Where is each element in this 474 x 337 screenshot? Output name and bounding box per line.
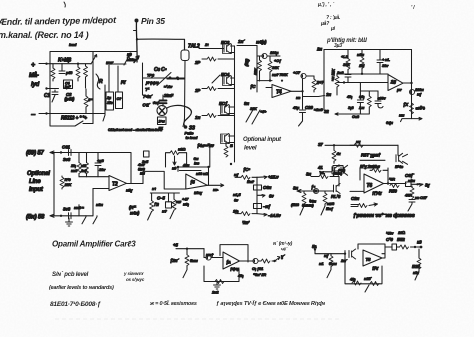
op-amp T7 <box>223 252 240 269</box>
resistor 100ohm at output <box>410 103 414 114</box>
top rail wire <box>50 52 137 114</box>
resistor R1 <box>52 64 54 68</box>
fet right <box>397 145 399 155</box>
wire from T2 out rising <box>143 171 186 189</box>
fet <box>344 251 346 254</box>
feedback loop <box>360 168 370 180</box>
switch stroke <box>157 73 171 86</box>
plus input wire <box>93 188 109 190</box>
divider resistors 58 <box>78 205 80 216</box>
box stub top <box>333 166 343 172</box>
electrolytic C on wire <box>257 55 262 57</box>
feedback wires <box>360 159 385 161</box>
left vertical <box>142 63 144 95</box>
resistor branch right <box>173 193 175 199</box>
branch resistor 1M <box>361 50 363 58</box>
input network top wire <box>150 192 179 194</box>
stray pen mark <box>64 2 65 7</box>
op-amp T3 <box>186 174 208 189</box>
feedback cap 30p <box>97 153 99 163</box>
op-amp T8 <box>363 250 382 266</box>
input wire top <box>47 63 92 65</box>
top rail <box>324 49 412 51</box>
wire regulator down rail <box>183 61 185 127</box>
cap box 2 <box>254 204 262 209</box>
feedback wires <box>178 166 209 168</box>
output <box>240 260 253 262</box>
wire pin35 down <box>135 22 138 62</box>
wire from rail <box>203 249 205 258</box>
minus input wire <box>257 80 272 82</box>
resistor 30K vert <box>269 56 271 61</box>
plus input wire <box>337 82 388 84</box>
tiny box left <box>144 151 150 157</box>
arrow <box>124 56 130 65</box>
down arrow <box>173 156 176 165</box>
wire into T8 minus from left <box>382 253 385 255</box>
right rail <box>234 46 236 162</box>
feedback loop <box>220 245 248 262</box>
capacitor C <box>61 64 63 71</box>
output to 1b terminal <box>303 96 325 97</box>
top wire <box>176 248 204 250</box>
dangling strokes <box>246 108 260 124</box>
series cap <box>204 257 206 259</box>
bottom rail <box>47 113 94 115</box>
frame wire <box>166 153 187 167</box>
minus input wire <box>337 73 388 75</box>
ground marks <box>216 282 218 285</box>
rail <box>256 177 258 213</box>
node junction <box>136 38 138 40</box>
bottom tie <box>93 114 105 122</box>
bridge squiggle <box>96 74 100 89</box>
feedback <box>358 244 385 254</box>
resistor branch 2.2 <box>368 91 370 96</box>
dangles <box>82 216 97 224</box>
rail down to fet <box>338 177 340 187</box>
output <box>384 183 407 185</box>
EC2 <box>221 134 230 144</box>
plus vertical <box>92 189 94 216</box>
electrolytic C7 <box>302 77 304 92</box>
rail <box>104 85 106 115</box>
mid input wire <box>47 88 59 90</box>
resistor R10 <box>61 176 63 177</box>
left rail <box>53 153 55 216</box>
resistor R2 <box>85 89 87 96</box>
op-amp T6 <box>364 174 384 193</box>
shunt resistor <box>330 254 332 256</box>
input wire <box>237 45 257 47</box>
resistor 50K vert <box>259 56 261 60</box>
output wire <box>291 90 303 92</box>
feedback riser to C4 row <box>209 144 211 168</box>
cap box 2u35v <box>106 92 114 110</box>
shunt resistor <box>186 249 188 255</box>
output <box>382 254 385 258</box>
box cap C4 1uF <box>64 80 73 89</box>
op-amp T4 <box>272 85 291 98</box>
input wire 58 <box>51 215 93 217</box>
divider resistors <box>78 153 80 163</box>
down branch C20 <box>302 91 304 109</box>
wire to regulator <box>137 39 185 50</box>
cap C62 <box>69 213 72 219</box>
resistor branch left <box>151 193 153 201</box>
cap branch 100p <box>377 91 379 100</box>
pin 35 label <box>135 19 139 23</box>
node <box>269 79 271 81</box>
output <box>127 183 144 185</box>
minus wire in <box>350 190 364 192</box>
wire stub <box>167 78 185 80</box>
main wire <box>297 190 333 192</box>
regulator U1 7AL2 <box>181 50 189 61</box>
cap box C <box>116 92 123 109</box>
pullup node 33 <box>184 125 188 129</box>
resistor below <box>225 142 227 146</box>
switch arrow <box>91 55 97 65</box>
branch resistor 30K <box>347 50 349 59</box>
series resistor <box>350 144 354 146</box>
input wire <box>315 250 345 254</box>
resistor 1w <box>324 191 326 193</box>
switch on return <box>75 121 93 126</box>
hanging network mid <box>360 83 378 92</box>
left vertical <box>256 46 258 93</box>
feedback top wire <box>88 153 131 184</box>
cap branch 3n3 <box>359 91 361 99</box>
branch cap 2uF <box>345 75 351 78</box>
+15 feed <box>235 176 241 178</box>
shunt on output <box>411 186 413 188</box>
swoosh wire to pullup <box>167 105 191 124</box>
R25 branch <box>418 249 420 258</box>
terminal arrow <box>50 151 54 154</box>
box cap branch <box>168 193 170 202</box>
node <box>177 78 179 80</box>
minus input wire <box>79 176 109 178</box>
resistor R <box>77 64 79 67</box>
transistor Q1 <box>157 106 167 116</box>
0v tap <box>257 195 265 198</box>
output <box>207 184 223 187</box>
node <box>77 63 79 65</box>
electrolytic 100u at output <box>409 89 414 94</box>
wire up right <box>109 63 126 65</box>
lower return wire <box>50 114 75 127</box>
cap box C6b <box>254 185 262 190</box>
op-amp T5 <box>388 75 403 91</box>
right rail <box>92 52 94 124</box>
output wire + feedback <box>403 82 412 84</box>
bus wire <box>143 77 185 79</box>
box 24u <box>158 117 167 125</box>
resistor long <box>85 64 87 66</box>
long wire <box>325 144 398 146</box>
input wire <box>51 152 88 154</box>
wire joins <box>320 165 339 172</box>
faint scan line <box>55 318 340 320</box>
ground <box>68 218 70 222</box>
left rail <box>323 50 325 111</box>
shunt resistor 4k <box>333 145 335 150</box>
fets bottom <box>332 165 339 175</box>
bottom wire <box>204 266 239 282</box>
wire to resistor 2+7 <box>307 75 315 77</box>
bottom network <box>345 254 382 284</box>
op-amp T2 <box>109 176 127 191</box>
resistor R23 <box>303 191 305 193</box>
plus wire <box>266 87 272 89</box>
branch cap 30p feedback <box>379 50 381 60</box>
